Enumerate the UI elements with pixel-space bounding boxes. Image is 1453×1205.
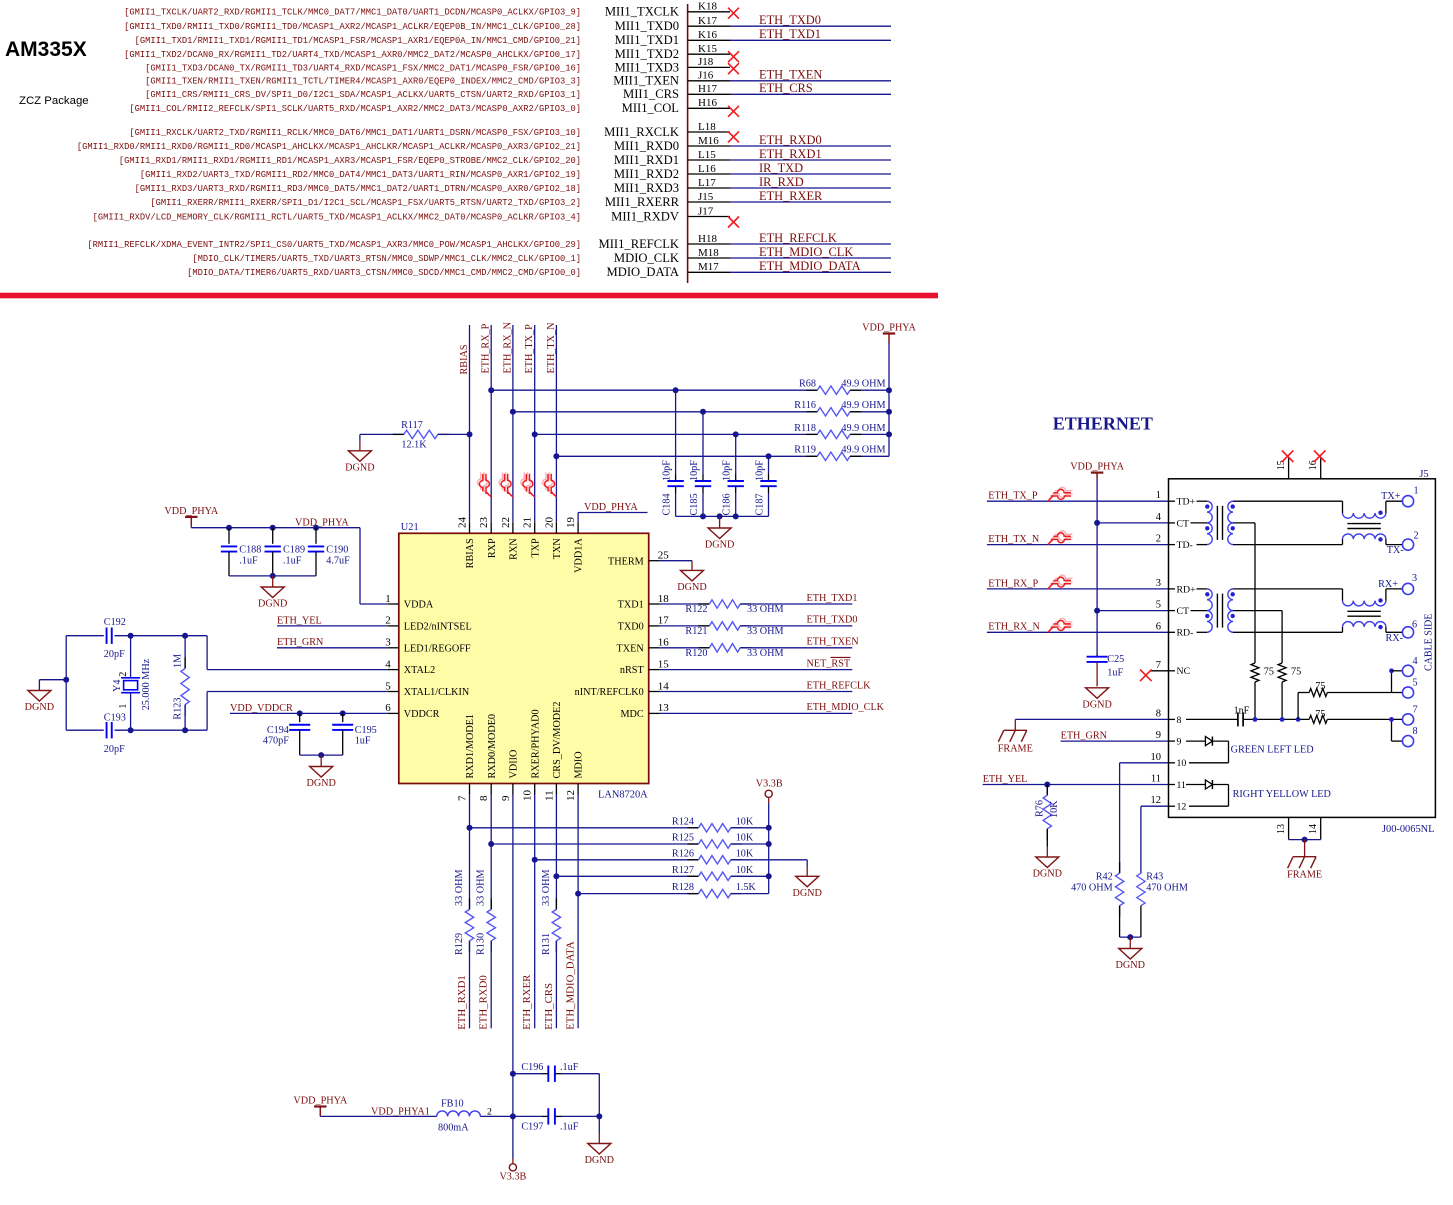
svg-text:R124: R124 xyxy=(672,816,694,827)
svg-text:25: 25 xyxy=(658,550,670,562)
pin 21 TXP xyxy=(534,522,536,533)
svg-text:C184: C184 xyxy=(662,493,673,515)
svg-text:L15: L15 xyxy=(698,149,716,161)
svg-text:VDD_VDDCR: VDD_VDDCR xyxy=(230,703,293,714)
power VDD_PHYA ethernet xyxy=(1091,472,1103,474)
wire net IR_TXD xyxy=(730,173,891,175)
svg-text:[GMII1_TXD1/RMII1_TXD1/RGMII1_: [GMII1_TXD1/RMII1_TXD1/RGMII1_TD1/MCASP1… xyxy=(135,36,581,46)
svg-text:VDD_PHYA: VDD_PHYA xyxy=(293,1096,347,1107)
svg-text:[GMII1_TXD0/RMII1_TXD0/RGMII1_: [GMII1_TXD0/RMII1_TXD0/RGMII1_TD0/MCASP1… xyxy=(124,22,581,32)
svg-text:C190: C190 xyxy=(326,545,348,556)
svg-text:[GMII1_RXDV/LCD_MEMORY_CLK/RGM: [GMII1_RXDV/LCD_MEMORY_CLK/RGMII1_RCTL/U… xyxy=(93,212,581,222)
ground DGND crystal xyxy=(39,679,66,681)
transformer TX cable core xyxy=(1347,523,1380,525)
transformer TX cable coil bottom xyxy=(1342,539,1344,545)
wire net ETH_TXD0 xyxy=(730,25,891,27)
svg-text:R43: R43 xyxy=(1146,872,1163,883)
svg-text:MII1_REFCLK: MII1_REFCLK xyxy=(599,237,679,251)
svg-text:RIGHT YELLOW LED: RIGHT YELLOW LED xyxy=(1233,789,1331,800)
svg-text:800mA: 800mA xyxy=(438,1122,469,1133)
svg-text:ETH_TX_P: ETH_TX_P xyxy=(524,324,535,374)
wire R116 row xyxy=(513,411,817,413)
svg-text:R129: R129 xyxy=(454,933,465,955)
wire cap bottom rail xyxy=(229,575,316,577)
svg-text:nRST: nRST xyxy=(620,665,645,676)
svg-text:C196: C196 xyxy=(521,1062,543,1073)
svg-text:DGND: DGND xyxy=(258,599,287,610)
svg-text:FRAME: FRAME xyxy=(1287,870,1322,881)
pin 1 VDDA xyxy=(388,603,399,605)
svg-text:MII1_RXD0: MII1_RXD0 xyxy=(614,139,679,153)
svg-text:Y4: Y4 xyxy=(112,680,123,692)
svg-text:FB10: FB10 xyxy=(441,1098,464,1109)
svg-text:1uF: 1uF xyxy=(355,736,371,747)
svg-text:ETH_YEL: ETH_YEL xyxy=(277,615,322,626)
differential pair marker ETH_RX_P xyxy=(477,472,489,495)
svg-text:H16: H16 xyxy=(698,97,717,109)
wire net ETH_RXER xyxy=(730,201,891,203)
svg-text:H17: H17 xyxy=(698,83,717,95)
wire R118 row xyxy=(535,433,818,435)
svg-text:11: 11 xyxy=(1177,780,1187,791)
wire pin7 to resistor xyxy=(469,795,471,910)
svg-text:DGND: DGND xyxy=(1033,869,1062,880)
wire net ETH_RXD1 xyxy=(730,159,891,161)
svg-text:MDIO_CLK: MDIO_CLK xyxy=(614,251,679,265)
AM335X pin column line xyxy=(687,4,689,283)
svg-text:K18: K18 xyxy=(698,1,717,13)
svg-text:75: 75 xyxy=(1264,666,1274,677)
transformer RX secondary leads xyxy=(1233,588,1343,590)
wire pin8 to resistor xyxy=(490,795,492,910)
no-connect X K15 xyxy=(728,51,739,62)
svg-text:13: 13 xyxy=(1276,824,1287,834)
svg-text:RXER/PHYAD0: RXER/PHYAD0 xyxy=(530,709,541,778)
svg-text:TX-: TX- xyxy=(1387,545,1405,556)
svg-text:4: 4 xyxy=(385,658,391,670)
wire pins 4 5 tie xyxy=(1391,671,1393,693)
svg-text:[GMII1_TXD2/DCAN0_RX/RGMII1_TD: [GMII1_TXD2/DCAN0_RX/RGMII1_TD2/UART4_TX… xyxy=(124,50,581,60)
node TX- pin2 circle xyxy=(1402,539,1413,550)
svg-text:C188: C188 xyxy=(239,545,261,556)
wire CT1 to jack xyxy=(1097,522,1168,524)
svg-text:R119: R119 xyxy=(794,445,816,456)
svg-text:RXN: RXN xyxy=(509,538,520,560)
svg-text:VDD_PHYA: VDD_PHYA xyxy=(1070,462,1124,473)
svg-text:2: 2 xyxy=(118,672,129,677)
wire pin9 VDIIO down xyxy=(512,795,514,1159)
svg-text:MII1_RXERR: MII1_RXERR xyxy=(605,195,680,209)
svg-text:4: 4 xyxy=(1413,656,1418,667)
svg-text:MII1_RXD3: MII1_RXD3 xyxy=(614,181,679,195)
svg-text:[GMII1_RXD1/RMII1_RXD1/RGMII1_: [GMII1_RXD1/RMII1_RXD1/RGMII1_RD1/MCASP1… xyxy=(119,156,581,166)
svg-text:23: 23 xyxy=(478,517,490,529)
svg-text:[GMII1_TXCLK/UART2_RXD/RGMII1_: [GMII1_TXCLK/UART2_RXD/RGMII1_TCLK/MMC0_… xyxy=(124,8,581,18)
svg-text:[GMII1_TXD3/DCAN0_TX/RGMII1_TD: [GMII1_TXD3/DCAN0_TX/RGMII1_TD3/UART4_RX… xyxy=(145,63,581,73)
node pin4 circle xyxy=(1402,665,1413,676)
svg-text:ETH_YEL: ETH_YEL xyxy=(983,774,1028,785)
svg-text:3: 3 xyxy=(1156,578,1161,589)
svg-text:7: 7 xyxy=(457,795,469,801)
wire ETH_MDIO_CLK net xyxy=(660,712,853,714)
svg-text:MII1_TXD2: MII1_TXD2 xyxy=(615,47,679,61)
pin 17 TXD0 xyxy=(649,625,660,627)
resistor R116 49.9 OHM xyxy=(806,411,817,413)
svg-text:L16: L16 xyxy=(698,163,716,175)
svg-text:33 OHM: 33 OHM xyxy=(476,869,487,906)
svg-text:10pF: 10pF xyxy=(755,460,766,481)
svg-text:RBIAS: RBIAS xyxy=(465,538,476,568)
capacitor C197 .1uF xyxy=(513,1115,542,1117)
wire pin11 to resistor xyxy=(555,795,557,910)
wire net ETH_CRS xyxy=(730,93,891,95)
svg-text:12: 12 xyxy=(1177,802,1187,813)
svg-text:DGND: DGND xyxy=(677,582,706,593)
transformer TX cable coil top xyxy=(1342,501,1344,513)
wire net ETH_RXD0 xyxy=(730,145,891,147)
pin 12 MDIO xyxy=(577,784,579,795)
svg-text:ETH_RXD0: ETH_RXD0 xyxy=(759,133,822,147)
pin 8 RXD0/MODE0 xyxy=(490,784,492,795)
svg-text:ETH_RXD1: ETH_RXD1 xyxy=(456,975,468,1030)
wire ETH_RX_P vertical xyxy=(490,325,492,522)
svg-text:16: 16 xyxy=(658,637,670,649)
transformer RX cable coil top xyxy=(1342,589,1344,601)
svg-text:MII1_RXD2: MII1_RXD2 xyxy=(614,167,679,181)
svg-text:IR_RXD: IR_RXD xyxy=(759,175,804,189)
svg-text:10: 10 xyxy=(1151,752,1162,763)
svg-text:ETH_TXEN: ETH_TXEN xyxy=(807,637,860,648)
pin 25 THERM xyxy=(649,560,660,562)
pin 10 RXER/PHYAD0 xyxy=(534,784,536,795)
svg-text:12: 12 xyxy=(565,790,577,801)
svg-text:ETH_TXD1: ETH_TXD1 xyxy=(759,27,821,41)
resistor R117 xyxy=(360,433,404,435)
wire ETH_TX_N vertical xyxy=(555,325,557,522)
svg-text:MDIO_DATA: MDIO_DATA xyxy=(607,265,679,279)
svg-text:VDD_PHYA: VDD_PHYA xyxy=(862,323,916,334)
svg-text:1M: 1M xyxy=(173,654,184,668)
svg-text:[GMII1_CRS/RMII1_CRS_DV/SPI1_D: [GMII1_CRS/RMII1_CRS_DV/SPI1_D0/I2C1_SDA… xyxy=(145,90,581,100)
svg-text:DGND: DGND xyxy=(306,778,335,789)
svg-text:4: 4 xyxy=(1156,512,1162,523)
svg-text:470pF: 470pF xyxy=(263,736,289,747)
svg-text:13: 13 xyxy=(658,702,670,714)
svg-text:10K: 10K xyxy=(736,865,754,876)
frame ground pin8 xyxy=(1014,719,1016,730)
svg-text:VDD_PHYA: VDD_PHYA xyxy=(584,502,638,513)
svg-text:[GMII1_RXERR/RMII1_RXERR/SPI1_: [GMII1_RXERR/RMII1_RXERR/SPI1_D1/I2C1_SC… xyxy=(150,198,581,208)
svg-text:1uF: 1uF xyxy=(1107,667,1123,678)
wire R42 R43 join xyxy=(1120,936,1141,938)
transformer TX secondary winding xyxy=(1228,501,1233,523)
svg-text:[RMII1_REFCLK/XDMA_EVENT_INTR2: [RMII1_REFCLK/XDMA_EVENT_INTR2/SPI1_CS0/… xyxy=(87,240,581,250)
pin 16 TXEN xyxy=(649,647,660,649)
red divider bar xyxy=(0,293,938,299)
svg-text:MII1_RXDV: MII1_RXDV xyxy=(611,209,679,223)
svg-text:XTAL2: XTAL2 xyxy=(404,665,435,676)
svg-text:LED1/REGOFF: LED1/REGOFF xyxy=(404,643,471,654)
svg-text:R130: R130 xyxy=(476,933,487,955)
svg-text:R118: R118 xyxy=(794,423,816,434)
svg-text:VDDA: VDDA xyxy=(404,600,434,611)
frame ground jack shield xyxy=(1304,840,1306,857)
differential pair marker ETH_RX_N xyxy=(1049,619,1072,631)
svg-text:ETH_TX_N: ETH_TX_N xyxy=(988,534,1040,545)
wire net IR_RXD xyxy=(730,187,891,189)
capacitor C186 10pF xyxy=(735,434,737,474)
svg-text:10K: 10K xyxy=(736,816,754,827)
svg-text:VDD_PHYA: VDD_PHYA xyxy=(164,506,218,517)
svg-text:14: 14 xyxy=(658,680,670,692)
svg-text:THERM: THERM xyxy=(608,556,644,567)
capacitor C189 .1uF xyxy=(270,525,276,531)
wire ETH_YEL xyxy=(983,784,1169,786)
capacitor C190 4.7uF xyxy=(313,525,319,531)
wire nRST net xyxy=(660,669,853,671)
svg-text:CABLE SIDE: CABLE SIDE xyxy=(1424,614,1435,672)
svg-text:TXD0: TXD0 xyxy=(618,622,644,633)
svg-text:14: 14 xyxy=(1308,824,1319,834)
wire V3.3B vertical xyxy=(768,797,770,803)
svg-text:49.9 OHM: 49.9 OHM xyxy=(841,379,885,390)
svg-text:10pF: 10pF xyxy=(689,460,700,481)
wire ETH_TX_N to jack xyxy=(987,544,1169,546)
svg-text:2: 2 xyxy=(1414,530,1419,541)
svg-text:6: 6 xyxy=(1412,620,1417,631)
svg-text:C187: C187 xyxy=(755,493,766,515)
node pin7 circle xyxy=(1402,714,1413,725)
svg-text:J16: J16 xyxy=(698,70,714,82)
svg-text:ETH_MDIO_DATA: ETH_MDIO_DATA xyxy=(759,259,861,273)
pin 11 CRS_DV/MODE2 xyxy=(555,784,557,795)
svg-text:TX+: TX+ xyxy=(1381,491,1401,502)
pin 6 VDDCR xyxy=(388,712,399,714)
svg-text:8: 8 xyxy=(1177,715,1182,726)
svg-text:ETH_TXD0: ETH_TXD0 xyxy=(807,615,858,626)
pin 20 TXN xyxy=(555,522,557,533)
svg-text:L17: L17 xyxy=(698,177,716,189)
wire ETH_TX_P vertical xyxy=(534,325,536,522)
svg-text:DGND: DGND xyxy=(25,702,54,713)
svg-text:9: 9 xyxy=(1156,730,1161,741)
wire to pin1 VDDA xyxy=(359,528,361,604)
svg-text:3: 3 xyxy=(385,637,391,649)
resistor R130 33 OHM xyxy=(490,898,492,909)
svg-text:5: 5 xyxy=(385,680,391,692)
resistor R118 49.9 OHM xyxy=(806,433,817,435)
wire crystal top rail xyxy=(66,635,104,637)
svg-text:24: 24 xyxy=(457,517,469,529)
no-connect X K18 xyxy=(728,8,739,19)
capacitor C195 1uF xyxy=(340,710,346,716)
node pin8 circle xyxy=(1402,736,1413,747)
svg-text:470 OHM: 470 OHM xyxy=(1146,883,1188,894)
svg-text:C193: C193 xyxy=(104,712,126,723)
svg-text:12: 12 xyxy=(1151,795,1162,806)
svg-text:MDIO: MDIO xyxy=(574,751,585,778)
svg-text:ETH_TXD1: ETH_TXD1 xyxy=(807,593,858,604)
svg-text:11: 11 xyxy=(543,790,555,801)
wire ETH_TX_P to jack xyxy=(987,500,1169,502)
wire R119 row xyxy=(556,455,817,457)
wire cap ground rail xyxy=(676,515,769,517)
svg-text:MII1_TXD0: MII1_TXD0 xyxy=(615,19,679,33)
pin 5 XTAL1/CLKIN xyxy=(388,691,399,693)
svg-text:[MDIO_DATA/TIMER6/UART5_RXD/UA: [MDIO_DATA/TIMER6/UART5_RXD/UART3_CTSN/M… xyxy=(187,268,581,278)
differential pair marker ETH_RX_P xyxy=(1049,575,1072,587)
svg-text:75: 75 xyxy=(1315,709,1325,720)
svg-text:25.000 MHz: 25.000 MHz xyxy=(141,658,152,710)
svg-text:NET_RST: NET_RST xyxy=(807,658,851,669)
svg-text:ETH_RXER: ETH_RXER xyxy=(759,189,823,203)
svg-text:RX+: RX+ xyxy=(1378,579,1398,590)
svg-text:[GMII1_RXCLK/UART2_TXD/RGMII1_: [GMII1_RXCLK/UART2_TXD/RGMII1_RCLK/MMC0_… xyxy=(129,128,581,138)
svg-text:R42: R42 xyxy=(1096,872,1113,883)
svg-text:ETH_RX_P: ETH_RX_P xyxy=(481,323,492,373)
svg-text:ETH_CRS: ETH_CRS xyxy=(759,81,813,95)
svg-text:DGND: DGND xyxy=(345,462,374,473)
svg-text:M16: M16 xyxy=(698,135,719,147)
inductor FB10 800mA ferrite bead xyxy=(437,1111,481,1116)
capacitor C184 10pF xyxy=(675,390,677,474)
capacitor C193 20pF xyxy=(106,722,108,738)
svg-text:J15: J15 xyxy=(698,191,714,203)
svg-text:R117: R117 xyxy=(401,420,423,431)
svg-text:M17: M17 xyxy=(698,261,719,273)
svg-text:ETH_MDIO_CLK: ETH_MDIO_CLK xyxy=(807,702,885,713)
resistor 75 OHM to pins 4 5 xyxy=(1297,693,1299,720)
transformer RX secondary winding xyxy=(1228,589,1233,611)
svg-text:18: 18 xyxy=(658,593,670,605)
svg-text:NC: NC xyxy=(1177,666,1191,677)
wire pin10 net xyxy=(1120,762,1169,764)
svg-text:8: 8 xyxy=(478,795,490,801)
svg-text:4.7uF: 4.7uF xyxy=(326,556,350,567)
svg-text:1: 1 xyxy=(1414,485,1419,496)
svg-text:ETH_RXD0: ETH_RXD0 xyxy=(478,975,490,1030)
svg-text:33 OHM: 33 OHM xyxy=(747,626,784,637)
ground DGND R126 xyxy=(806,860,808,866)
pin 9 VDIIO xyxy=(512,784,514,795)
svg-text:C192: C192 xyxy=(104,617,126,628)
wire R68 row xyxy=(491,389,817,391)
no-connect X pin 15 xyxy=(1282,450,1294,462)
resistor R129 33 OHM xyxy=(469,898,471,909)
node RX+ pin3 circle xyxy=(1402,583,1413,594)
pin 19 VDD1A xyxy=(577,522,579,533)
no-connect X L18 xyxy=(728,131,739,142)
LED yellow pins 11 12 xyxy=(1186,784,1205,786)
svg-text:LED2/nINTSEL: LED2/nINTSEL xyxy=(404,622,472,633)
svg-text:LAN8720A: LAN8720A xyxy=(598,790,648,801)
svg-text:TXP: TXP xyxy=(530,538,541,558)
svg-text:J18: J18 xyxy=(698,56,714,68)
wire ETH_RX_N to jack xyxy=(987,631,1169,633)
transformer RX cable coil bottom xyxy=(1342,627,1344,633)
svg-text:XTAL1/CLKIN: XTAL1/CLKIN xyxy=(404,687,470,698)
svg-text:TD+: TD+ xyxy=(1177,497,1196,508)
svg-text:CT: CT xyxy=(1177,606,1190,617)
pin 15 stub xyxy=(1288,458,1290,479)
svg-text:21: 21 xyxy=(522,517,534,528)
svg-text:K17: K17 xyxy=(698,15,717,27)
resistor R119 49.9 OHM xyxy=(806,455,817,457)
svg-text:8: 8 xyxy=(1413,726,1418,737)
svg-text:ETH_RXER: ETH_RXER xyxy=(521,974,533,1030)
svg-text:1.5K: 1.5K xyxy=(736,882,757,893)
svg-text:10pF: 10pF xyxy=(722,460,733,481)
svg-text:49.9 OHM: 49.9 OHM xyxy=(841,423,885,434)
svg-text:10K: 10K xyxy=(1049,800,1060,818)
svg-text:MII1_TXEN: MII1_TXEN xyxy=(613,74,679,88)
svg-text:MII1_TXD3: MII1_TXD3 xyxy=(615,60,679,74)
svg-text:TXD1: TXD1 xyxy=(618,600,644,611)
crystal Y4 25.000 MHz xyxy=(128,633,134,639)
capacitor C196 .1uF xyxy=(510,1071,516,1077)
svg-text:CRS_DV/MODE2: CRS_DV/MODE2 xyxy=(552,702,563,779)
svg-text:33 OHM: 33 OHM xyxy=(747,604,784,615)
svg-text:TXEN: TXEN xyxy=(617,643,645,654)
svg-text:C194: C194 xyxy=(267,725,289,736)
svg-text:VDD_PHYA: VDD_PHYA xyxy=(295,517,349,528)
svg-text:7: 7 xyxy=(1413,705,1418,716)
wire pin8 net xyxy=(1015,718,1168,720)
svg-text:ETH_RXD1: ETH_RXD1 xyxy=(759,147,822,161)
pin 24 RBIAS xyxy=(469,522,471,533)
svg-text:1: 1 xyxy=(118,704,129,709)
pin 14 stub xyxy=(1320,817,1322,839)
pin 13 stub xyxy=(1288,817,1290,839)
ground DGND R76 xyxy=(1046,847,1048,858)
svg-text:.1uF: .1uF xyxy=(283,556,302,567)
ground DGND caps xyxy=(719,516,721,528)
svg-text:RXD0/MODE0: RXD0/MODE0 xyxy=(487,714,498,779)
svg-text:FRAME: FRAME xyxy=(998,743,1033,754)
svg-text:K16: K16 xyxy=(698,29,717,41)
resistor R43 470 OHM xyxy=(1137,873,1145,906)
svg-text:MII1_RXD1: MII1_RXD1 xyxy=(614,153,679,167)
svg-text:DGND: DGND xyxy=(1082,699,1111,710)
power VDD_PHYA top right xyxy=(883,332,895,334)
wire RBIAS vertical xyxy=(469,325,471,522)
wire FB10 to pin9 xyxy=(480,1115,513,1117)
resistor R122 33 OHM xyxy=(660,603,710,605)
resistor R120 33 OHM xyxy=(660,647,710,649)
svg-text:M18: M18 xyxy=(698,247,719,259)
svg-text:C195: C195 xyxy=(355,725,377,736)
differential pair marker ETH_TX_P xyxy=(1049,487,1072,499)
svg-text:[GMII1_RXD2/UART3_TXD/RGMII1_R: [GMII1_RXD2/UART3_TXD/RGMII1_RD2/MMC0_DA… xyxy=(140,170,581,180)
pin 22 RXN xyxy=(512,522,514,533)
ground DGND C197 xyxy=(598,1116,600,1133)
wire pin10 down xyxy=(534,795,536,1029)
resistor R123 1M xyxy=(182,633,188,639)
resistor R121 33 OHM xyxy=(660,625,710,627)
svg-text:20pF: 20pF xyxy=(104,744,125,755)
wire C194 C195 bottom xyxy=(300,754,343,756)
svg-text:RD-: RD- xyxy=(1177,628,1194,639)
svg-text:C197: C197 xyxy=(521,1122,543,1133)
svg-text:ETH_MDIO_DATA: ETH_MDIO_DATA xyxy=(565,941,577,1030)
differential pair marker ETH_TX_P xyxy=(521,472,533,495)
wire net ETH_MDIO_CLK xyxy=(730,257,891,259)
svg-text:C186: C186 xyxy=(722,493,733,515)
svg-text:R126: R126 xyxy=(672,848,694,859)
svg-text:.1uF: .1uF xyxy=(560,1062,579,1073)
svg-text:[GMII1_RXD3/UART3_RXD/RGMII1_R: [GMII1_RXD3/UART3_RXD/RGMII1_RD3/MMC0_DA… xyxy=(135,184,581,194)
svg-text:R128: R128 xyxy=(672,882,694,893)
